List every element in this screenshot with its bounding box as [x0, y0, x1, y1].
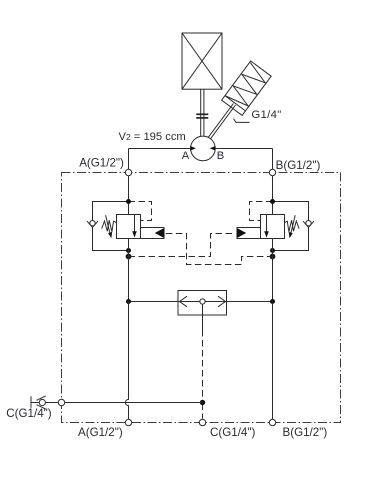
- pilot line V2 from A side (dashed): [129, 234, 235, 257]
- C drain wire horizontal: [45, 402, 202, 404]
- valve V2 spring adjust arrow: [289, 215, 296, 238]
- valve V1 spring adjust arrow: [106, 215, 113, 238]
- wire motor-B horizontal: [215, 148, 272, 150]
- wire B port to valve: [272, 176, 274, 215]
- G1/4 leader line: [234, 119, 250, 123]
- motor port arrow left: [190, 146, 196, 151]
- port B top: [269, 169, 275, 175]
- node A upper: [126, 199, 131, 204]
- shuttle chevron left: [180, 296, 188, 307]
- check valve bypass left wire: [93, 202, 129, 221]
- svg-text:A(G1/2"): A(G1/2"): [78, 426, 123, 439]
- port C bottom: [199, 419, 205, 425]
- shaft coupling ticks: [196, 114, 208, 118]
- valve V1 pilot box: [141, 228, 165, 239]
- svg-text:B(G1/2"): B(G1/2"): [283, 426, 328, 439]
- valve V1 flow arrow: [132, 215, 137, 238]
- brake spring: [226, 63, 266, 106]
- port A top: [125, 169, 131, 175]
- node shuttle left: [126, 299, 131, 304]
- wire check to lower node: [93, 227, 129, 250]
- drain stem below node dashed: [202, 405, 204, 419]
- check valve CV1: [87, 221, 98, 228]
- node B upper: [270, 199, 275, 204]
- valve V1 spring: [102, 220, 116, 232]
- port B bottom: [269, 419, 275, 425]
- shuttle valve body: [178, 291, 227, 316]
- pilot line V1 from B side (dashed): [166, 234, 273, 265]
- node C: [200, 400, 205, 405]
- svg-text:A: A: [182, 150, 190, 162]
- check valve bypass right wire: [273, 202, 309, 221]
- node B bypass lower: [270, 248, 275, 253]
- brake rod: [208, 104, 235, 140]
- port A bottom: [125, 419, 131, 425]
- svg-text:G1/4": G1/4": [251, 109, 281, 121]
- enclosure (manifold boundary): [62, 173, 341, 423]
- shuttle ball: [200, 299, 205, 304]
- svg-text:B(G1/2"): B(G1/2"): [276, 159, 321, 172]
- wire B line to bottom port: [272, 302, 274, 420]
- motor port arrow right: [210, 146, 216, 151]
- wire motor-A horizontal: [129, 148, 191, 150]
- counterbalance valve V1 body: [117, 215, 141, 239]
- valve V1 internal pilot (dashed): [129, 202, 152, 221]
- valve V2 internal pilot (dashed): [250, 202, 273, 221]
- valve V2 pilot box: [237, 228, 261, 239]
- svg-text:C(G1/4"): C(G1/4"): [210, 426, 255, 439]
- svg-text:C(G1/4"): C(G1/4"): [6, 407, 51, 420]
- check valve CV2: [303, 221, 314, 228]
- wire A line to bottom port (with hop): [125, 302, 128, 420]
- brake piston: [225, 96, 245, 111]
- wire B valve to shuttle level: [272, 239, 274, 302]
- svg-text:A(G1/2"): A(G1/2"): [79, 156, 124, 169]
- valve V2 flow arrow: [264, 215, 269, 238]
- shuttle drain stem dashed: [202, 330, 204, 400]
- svg-text:V2 = 195 ccm: V2 = 195 ccm: [119, 131, 186, 143]
- hydraulic motor M1: [191, 136, 216, 161]
- drive unit frame (rectangle with X): [182, 33, 222, 89]
- node A pilot tap: [126, 254, 132, 260]
- wire A down to port: [128, 149, 130, 173]
- wire A port to valve: [128, 176, 130, 215]
- wire check to lower node right: [273, 227, 309, 250]
- brake cylinder body: [222, 61, 272, 115]
- plug check symbol: [31, 396, 46, 409]
- valve V2 pilot arrow: [237, 228, 247, 239]
- counterbalance valve V2 body: [261, 215, 285, 239]
- wire B down to port: [272, 149, 274, 173]
- motor shaft: [201, 89, 204, 137]
- svg-text:B: B: [217, 150, 224, 162]
- shuttle chevron right: [218, 296, 226, 307]
- shuttle drain stem solid: [202, 304, 204, 330]
- wire A valve to shuttle level: [128, 239, 130, 302]
- node shuttle right: [270, 299, 275, 304]
- shuttle cross wire: [129, 301, 273, 303]
- node A bypass lower: [126, 248, 131, 253]
- valve V2 spring: [285, 220, 299, 232]
- node B pilot tap: [270, 254, 276, 260]
- port C left: [58, 399, 64, 405]
- valve V1 pilot arrow: [155, 228, 165, 239]
